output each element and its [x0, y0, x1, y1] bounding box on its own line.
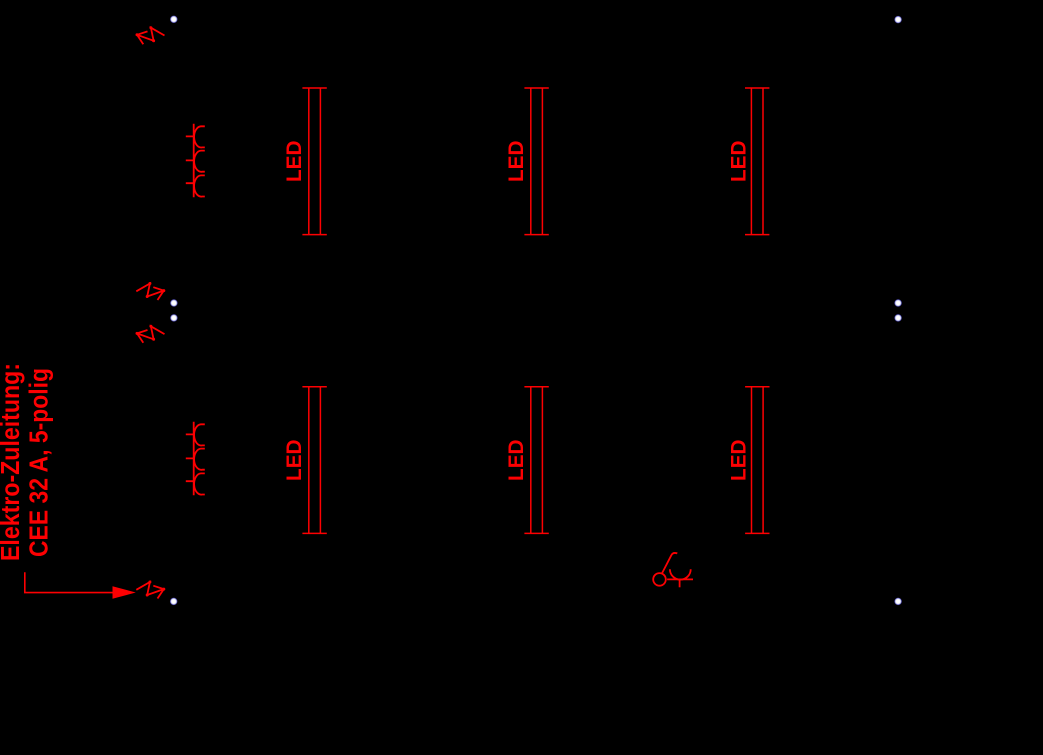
- svg-text:LED: LED: [504, 439, 528, 481]
- svg-text:LED: LED: [282, 439, 306, 481]
- svg-text:LED: LED: [282, 141, 306, 183]
- svg-text:Elektro-Zuleitung:: Elektro-Zuleitung:: [0, 363, 25, 561]
- svg-text:CEE 32 A, 5-polig: CEE 32 A, 5-polig: [23, 368, 53, 557]
- svg-text:LED: LED: [727, 439, 751, 481]
- svg-text:LED: LED: [504, 141, 528, 183]
- svg-text:LED: LED: [727, 141, 751, 183]
